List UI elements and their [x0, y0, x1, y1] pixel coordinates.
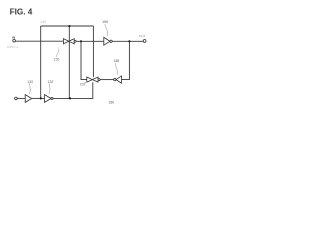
svg-text:FIG. 4: FIG. 4 — [10, 8, 33, 17]
svg-text:132: 132 — [48, 80, 54, 84]
svg-text:158: 158 — [113, 59, 119, 63]
svg-text:OUT: OUT — [139, 34, 146, 38]
svg-text:130: 130 — [27, 80, 33, 84]
svg-text:152: 152 — [80, 83, 86, 87]
svg-text:180: 180 — [108, 100, 114, 104]
svg-text:140: 140 — [40, 20, 46, 24]
svg-text:150: 150 — [54, 57, 60, 61]
svg-text:INPUT a: INPUT a — [7, 45, 19, 49]
svg-text:IN: IN — [12, 36, 15, 40]
svg-text:156: 156 — [102, 20, 108, 24]
